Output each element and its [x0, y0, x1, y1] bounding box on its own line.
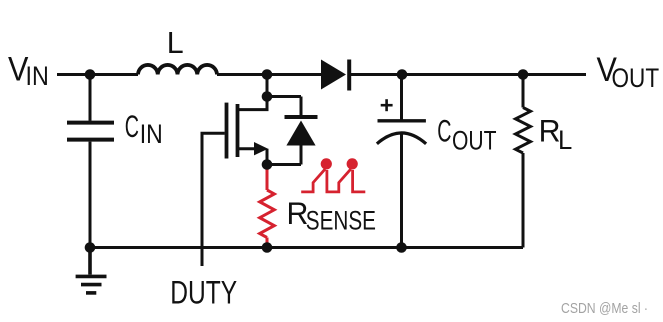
label VIN [8, 50, 49, 91]
resistor RL [516, 75, 531, 248]
wire [266, 75, 269, 97]
wire [57, 73, 138, 76]
capacitor COUT [377, 75, 426, 248]
wire [238, 97, 268, 110]
node C [397, 69, 408, 80]
svg-text:IN: IN [26, 61, 49, 91]
wire [267, 95, 301, 98]
wire [266, 149, 269, 165]
svg-text:C: C [125, 108, 139, 144]
svg-text:L: L [167, 26, 184, 60]
inductor L [138, 65, 217, 75]
wire [89, 75, 92, 121]
label RL [539, 113, 573, 155]
label RSENSE [287, 195, 377, 236]
node H [262, 242, 273, 253]
node I [396, 242, 407, 253]
svg-text:OUT: OUT [612, 63, 660, 93]
wire [89, 142, 92, 248]
wire [350, 73, 586, 76]
resistor RSENSE [260, 165, 275, 248]
node B [262, 69, 273, 80]
label VOUT [597, 51, 660, 93]
wire [202, 133, 225, 266]
svg-text:DUTY: DUTY [170, 275, 237, 311]
svg-text:OUT: OUT [452, 126, 497, 156]
node D [518, 69, 529, 80]
capacitor CIN [67, 123, 114, 140]
node G [85, 242, 96, 253]
svg-text:CSDN @Me sl ·: CSDN @Me sl · [561, 301, 648, 317]
svg-text:IN: IN [140, 119, 163, 149]
node A [85, 69, 96, 80]
label CIN [125, 108, 163, 149]
svg-text:C: C [437, 112, 451, 148]
svg-text:SENSE: SENSE [306, 206, 376, 236]
node F [262, 159, 273, 170]
ground [76, 248, 107, 293]
transistor Q1 [227, 103, 269, 159]
node E [262, 91, 273, 102]
wire [217, 73, 322, 76]
current waveform icon [301, 158, 365, 192]
wire [267, 163, 301, 166]
label COUT [437, 112, 496, 155]
diode D1 [321, 60, 349, 91]
diode D2 [285, 97, 318, 165]
wire [90, 246, 523, 249]
svg-text:L: L [558, 125, 572, 155]
